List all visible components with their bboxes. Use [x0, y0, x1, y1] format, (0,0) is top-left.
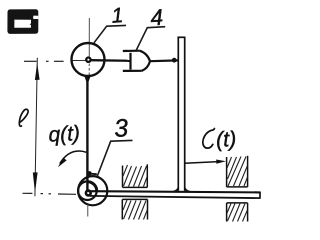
label 3 leader	[97, 140, 132, 176]
upper-right guide block	[227, 156, 248, 187]
q(t) arrowhead	[58, 158, 67, 168]
upper-left guide block	[123, 164, 148, 187]
rope end dot	[87, 171, 92, 176]
rack bottom line	[90, 196, 260, 198]
gear small circle heavy top-right arc	[88, 182, 97, 192]
lower-left guide block	[122, 199, 147, 219]
svg-text:1: 1	[111, 4, 124, 28]
q(t) rotation arrow arc	[60, 151, 87, 163]
lower-left hatching	[123, 200, 147, 220]
damper D4: cylinder top wall	[123, 50, 140, 52]
bar foot fillets	[173, 186, 179, 191]
rod from pulley to damper	[91, 59, 130, 62]
dimension arrow down	[33, 172, 38, 193]
vertical slider bar	[177, 37, 185, 191]
svg-text:q(t): q(t)	[48, 122, 81, 147]
label l (script ell)	[19, 109, 28, 126]
upper-left hatching	[123, 165, 147, 187]
svg-text:(t): (t)	[215, 127, 237, 152]
rope-pulley junction flare	[85, 77, 91, 82]
dimension arrow up	[35, 63, 40, 80]
upper-right hatching	[227, 157, 248, 187]
damper D4: beak (converging end)	[140, 51, 150, 62]
label 4 leader	[136, 27, 165, 51]
pulley hub / axis	[86, 58, 90, 62]
lower-right guide block	[227, 203, 248, 222]
figure number 6	[7, 9, 38, 34]
svg-text:4: 4	[150, 5, 164, 31]
bottom dash-dot centerline	[23, 193, 77, 194]
damper D4: cylinder bottom wall	[123, 70, 142, 72]
s(t) arrowhead	[216, 160, 226, 164]
junction dot on bar	[172, 58, 177, 63]
label 1 leader	[94, 25, 126, 42]
rod from damper to slider bar	[150, 59, 179, 62]
gear small circle	[78, 181, 97, 200]
s(t) displacement arrow	[185, 162, 219, 164]
rope end tick	[89, 173, 96, 176]
vertical centerline below gear	[87, 204, 89, 217]
svg-text:3: 3	[113, 114, 129, 143]
lower-right hatching	[227, 204, 247, 222]
gear big circle (drum 3)	[78, 176, 107, 205]
rope from pulley to gear	[86, 77, 88, 192]
horizontal dash-dot centerline left of pulley	[24, 59, 86, 62]
dimension line for l	[35, 58, 37, 196]
label s(t): custom s glyph	[203, 129, 215, 149]
rack top line	[88, 191, 259, 192]
rack right end cap	[259, 192, 261, 199]
gear hub	[86, 191, 91, 196]
pulley U1 (disk 1)	[72, 43, 105, 76]
vertical centerline above pulley	[88, 18, 90, 57]
damper D4: piston plate	[129, 53, 131, 70]
